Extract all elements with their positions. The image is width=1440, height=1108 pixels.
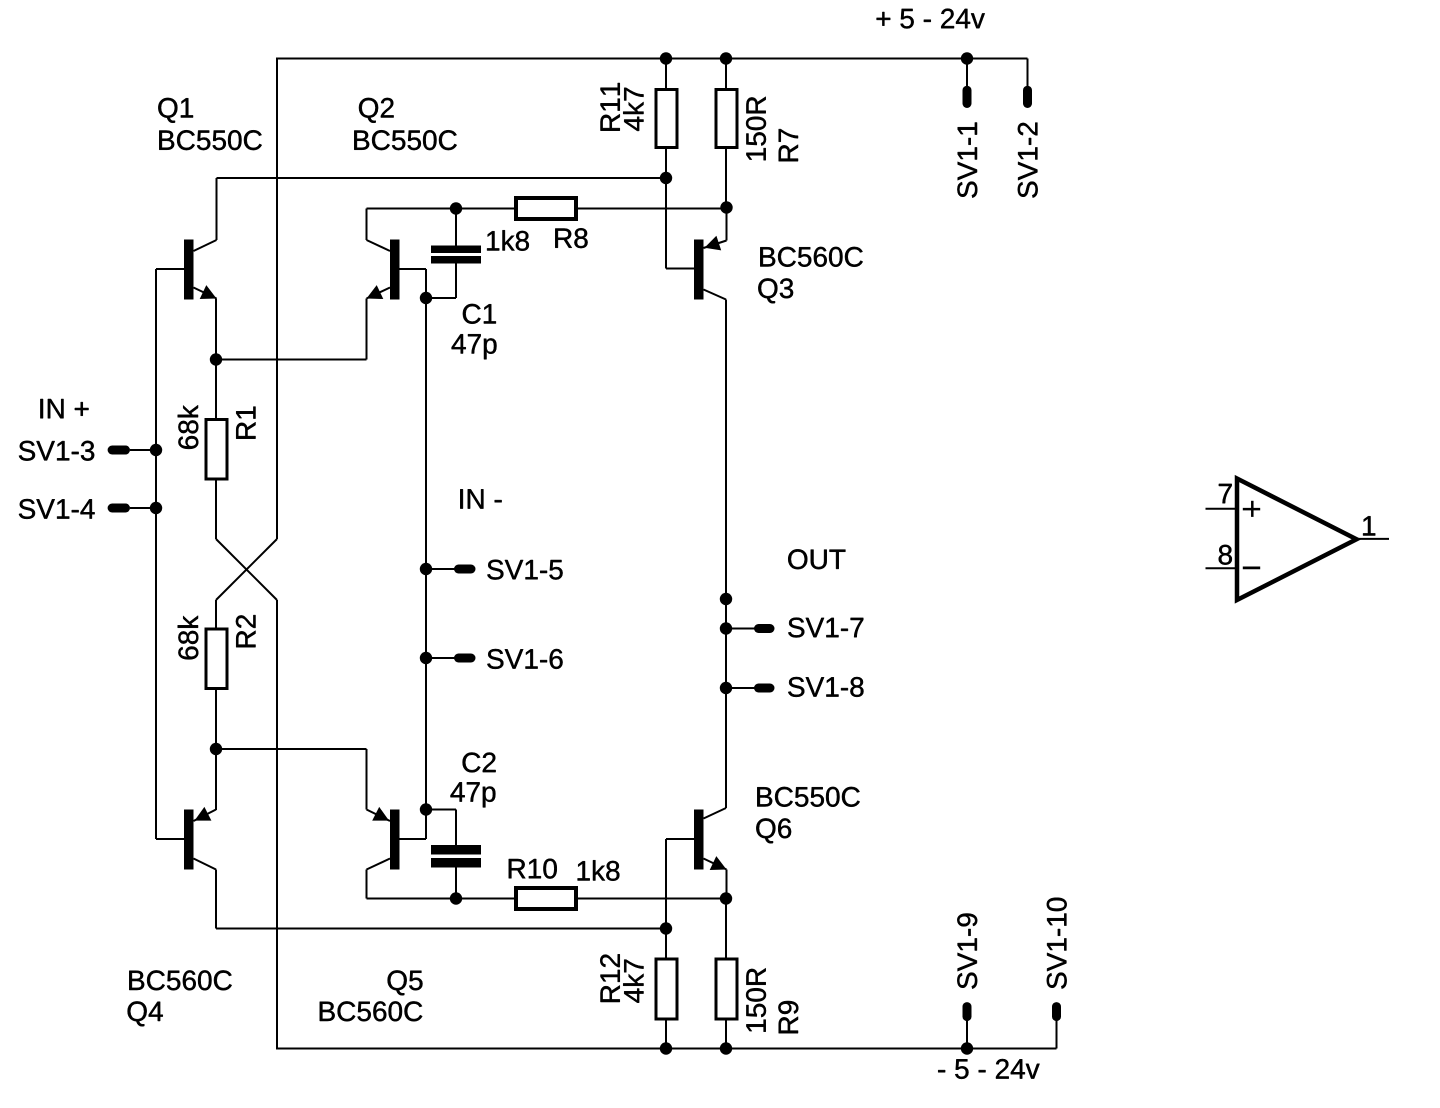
label Q3 value [760,247,863,267]
wire SV1-6 stub [426,657,456,659]
wire V+ top rail [276,58,1028,60]
junction SV1-6 [420,652,432,664]
wire SV1-10 riser [1056,1016,1058,1049]
label SV1-4 [19,499,95,519]
wire Q2 collector riser [366,209,368,241]
transistor Q2 [367,240,400,300]
wire Q5 emitter riser [366,749,368,810]
label OUT [788,549,845,569]
wire IN- column Q2 base to Q5 base [425,269,427,839]
label Q5 value [320,1001,423,1021]
label Q4 name [128,1001,163,1026]
resistor R11 [656,90,677,148]
label C1 value [452,334,497,359]
wire Q3 emitter riser [726,208,728,241]
wire Q4 collector drop [215,870,217,929]
wire emitter tie Q4-Q5 [216,748,367,750]
label R10 name [509,859,557,879]
pin SV1-4 [112,504,125,513]
junction bottom rail R9 [720,1042,732,1054]
label R2 name [236,615,256,647]
label R7 name [779,129,798,161]
wire Q1 collector to R11 node [217,177,667,179]
label Q5 name [388,970,423,995]
wire C2 top lead [455,810,457,846]
label SV1-1 [957,123,977,198]
wire R12 bottom lead [665,1021,667,1049]
wire R2 bottom lead [215,690,217,750]
wire Q3 base [666,268,694,270]
junction top rail R7 [720,52,732,64]
wire R2 top lead [215,600,217,628]
wire C2 bottom lead [455,868,457,899]
wire SV1-4 stub [130,507,156,509]
wire Q1 emitter drop [215,299,217,361]
label SV1-2 [1018,123,1038,198]
label C2 name [463,753,496,773]
transistor Q5 [367,807,400,870]
wire SV1-8 stub [726,687,756,689]
resistor R10 [516,888,576,909]
wire V- bottom rail [276,1048,1057,1050]
label R11 value [623,88,643,131]
transistor Q6 [694,808,727,870]
label R9 name [778,1001,798,1033]
wire R1 top lead [215,360,217,419]
label SV1-6 [487,649,562,669]
junction Q6 emitter R9 [720,892,732,904]
wire R11 top lead [665,59,667,89]
label R9 value [746,968,766,1031]
wire left tall V+ column [276,59,278,540]
wire OUT column Q3 collector to Q6 collector [725,300,727,809]
junction R11 bottom [660,172,672,184]
wire C1 bottom lead [455,264,457,299]
label SV1-5 [487,560,562,580]
wire R9 top lead [725,899,727,958]
wire R9 bottom lead [725,1021,727,1049]
wire R7 bottom lead [725,149,727,208]
label SV1-7 [788,618,863,638]
junction bottom rail R12 [660,1042,672,1054]
label Q1 name [158,98,193,123]
label Q1 value [159,130,261,150]
label SV1-3 [19,441,94,461]
wire Q1 base [156,268,184,270]
label V- rail [938,1059,1039,1079]
junction top rail SV1-1 [961,52,973,64]
wire cross diagonal V+ to R2 [216,539,277,600]
label R1 name [236,407,255,439]
junction SV1-7 [720,622,732,634]
wire Q1 collector riser [216,178,218,240]
label IN- [460,489,501,508]
wire C2 to IN- column [426,809,456,811]
junction bottom rail SV1-9 [961,1042,973,1054]
junction R8 C1 [450,202,462,214]
label op-amp pin 8 [1219,545,1232,565]
wire SV1-5 stub [426,568,456,570]
wire node E2 to Q4 emitter [215,749,217,810]
junction C1 Q2 base [420,292,432,304]
wire right tall V- column [276,600,278,1049]
wire Q4 collector to R12 node [216,928,666,930]
label Q3 name [758,278,793,303]
junction Q6 base R12 [660,922,672,934]
label op-amp pin 7 [1219,484,1232,503]
label SV1-8 [788,677,863,697]
resistor R7 [716,90,737,148]
pin SV1-9 [963,1007,972,1017]
capacitor C2 [431,845,481,868]
wire cross diagonal R1 to V- [216,539,277,600]
wire R1 bottom lead [215,481,217,540]
label R10 value [578,860,620,881]
junction SV1-4 [150,502,162,514]
wire SV1-1 drop [966,59,968,89]
label R7 value [746,97,766,161]
wire Q5 collector drop [366,870,368,899]
junction Q1 Q2 emitters [210,353,222,365]
junction C2 Q5 base [420,803,432,815]
resistor R12 [656,959,677,1019]
label Q6 value [757,787,860,807]
op-amp U1 [1206,479,1390,601]
pin SV1-8 [759,684,771,693]
pin SV1-7 [759,624,771,633]
label R2 value [178,616,199,660]
resistor R1 [206,420,227,480]
transistor Q3 [694,236,727,300]
junction OUT node [720,593,732,605]
wire Q5 collector to R10 [367,898,515,900]
junction top rail R11 [660,52,672,64]
wire SV1-7 stub [726,628,756,630]
pin SV1-10 [1052,1007,1061,1017]
wire Q2 collector to R8 [367,208,515,210]
label R8 value [487,230,529,251]
transistor Q4 [184,807,216,870]
junction Q4 Q5 emitters [210,743,222,755]
transistor Q1 [184,240,217,300]
label R1 value [178,405,199,449]
wire Q6 base column [665,839,667,958]
pin SV1-5 [459,565,472,574]
wire Q6 base stub [666,838,694,840]
wire Q6 emitter drop [726,870,728,899]
wire R7 top lead [725,59,727,89]
label SV1-10 [1047,898,1067,989]
label R12 name [600,954,620,1002]
label C2 value [451,782,496,807]
wire Q4 base [156,838,184,840]
wire R10 right to OUT column [578,898,726,900]
label Q2 name [359,98,394,123]
label Q6 name [756,818,791,843]
label op-amp pin 1 [1363,516,1375,535]
wire R8 right to Q3 emitter node [578,208,727,210]
label IN+ [40,399,88,418]
wire emitter tie Q1-Q2 [216,359,367,361]
wire SV1-2 drop [1027,59,1029,89]
junction Q3 emitter R7 [720,201,732,213]
resistor R8 [516,198,576,219]
wire Q5 base stub [400,838,427,840]
junction SV1-5 [420,563,432,575]
resistor R9 [716,959,737,1019]
label SV1-9 [957,914,977,989]
label Q2 value [354,130,457,150]
label R8 name [555,228,587,248]
resistor R2 [206,629,227,689]
junction SV1-3 [150,444,162,456]
wire IN+ column Q1 base to Q4 base [155,269,157,839]
wire Q2 emitter drop [366,299,368,360]
label R12 value [623,960,643,1003]
pin SV1-3 [112,446,125,455]
junction SV1-8 [720,682,732,694]
label R11 name [601,83,620,131]
label C1 name [463,304,496,324]
capacitor C1 [431,246,481,264]
wire R11 bottom to Q3 base corner [665,149,667,269]
wire C1 top lead [455,209,457,246]
pin SV1-2 [1023,90,1032,103]
wire Q2 base stub [400,268,427,270]
wire SV1-9 riser [966,1016,968,1049]
label Q4 value [129,970,232,990]
junction C2 R10 [450,892,462,904]
wire SV1-3 stub [130,449,156,451]
pin SV1-6 [459,654,472,663]
label V+ rail [877,9,985,29]
pin SV1-1 [963,90,972,103]
wire C1 to IN- column [426,297,456,299]
